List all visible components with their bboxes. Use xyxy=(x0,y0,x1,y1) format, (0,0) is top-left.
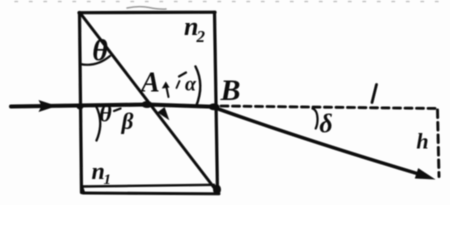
arrowhead on diagonal below A xyxy=(157,107,169,120)
incident ray (horizontal) xyxy=(11,105,214,107)
dash between theta and beta xyxy=(114,109,121,112)
svg-text:β: β xyxy=(121,109,134,134)
node B blob xyxy=(209,103,220,110)
dashed vertical line h xyxy=(438,110,440,177)
arc of angle theta (top-left corner) xyxy=(80,56,110,65)
glass block rectangle: top edge xyxy=(79,11,215,15)
delta angle mark xyxy=(313,109,318,129)
svg-text:δ: δ xyxy=(319,109,332,138)
dash of alpha arc xyxy=(179,73,186,77)
bottom-right corner blob xyxy=(213,185,221,195)
node A blob xyxy=(142,101,153,108)
svg-text:α: α xyxy=(185,74,197,96)
svg-text:1: 1 xyxy=(104,172,112,188)
small dash left of alpha xyxy=(177,81,180,88)
left-edge junction blob xyxy=(77,104,84,110)
arc of angle theta' (below ray, left of A) xyxy=(96,105,101,141)
bottom-left join xyxy=(82,187,84,193)
arrowhead of exit ray xyxy=(415,168,436,179)
glass block rectangle: right edge xyxy=(215,12,218,192)
svg-text:2: 2 xyxy=(196,27,206,46)
svg-text:θ: θ xyxy=(99,102,112,128)
svg-text:h: h xyxy=(416,129,428,154)
top scan artifact squiggle xyxy=(127,7,166,9)
label l xyxy=(372,85,377,103)
dashed horizontal line l xyxy=(221,106,439,109)
diagonal interface xyxy=(81,14,216,190)
refracted exit ray xyxy=(215,108,422,175)
svg-text:θ: θ xyxy=(92,34,108,67)
svg-text:B: B xyxy=(219,74,240,107)
glass block rectangle: bottom edge lower stroke xyxy=(83,192,219,196)
svg-text:A: A xyxy=(139,68,160,99)
arc of angle alpha (right paren) xyxy=(196,67,201,107)
arrowhead on incident ray xyxy=(39,100,58,112)
glass block rectangle: bottom edge upper stroke xyxy=(82,185,214,187)
glass block rectangle: left edge xyxy=(80,13,82,193)
top scan speckle row xyxy=(15,1,450,3)
small up arrow at A xyxy=(166,85,169,97)
